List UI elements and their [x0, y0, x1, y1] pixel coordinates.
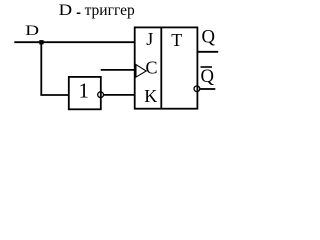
svg-text:T: T: [171, 30, 182, 50]
svg-text:K: K: [144, 86, 157, 106]
wire: inverter output to K input: [104, 94, 135, 96]
wire: C clock input: [101, 69, 135, 71]
JK flip-flop U2 box: [135, 27, 198, 108]
wire: Q output: [197, 51, 218, 53]
svg-text:триггер: триггер: [85, 2, 135, 19]
Qbar inversion bubble: [194, 86, 200, 92]
node Qbar label overbar: [201, 66, 213, 68]
inverter output inversion bubble: [98, 92, 104, 98]
junction dot at D branch: [39, 40, 43, 44]
svg-text:J: J: [146, 29, 153, 49]
svg-text:Q: Q: [201, 66, 215, 87]
wire: vertical drop from junction: [40, 42, 42, 95]
inverter U1 box: [69, 77, 101, 109]
wire: D input horizontal: [14, 41, 135, 43]
divider between control and main section: [160, 27, 162, 109]
wire: horizontal to inverter input: [40, 94, 69, 96]
svg-text:1: 1: [79, 79, 90, 103]
svg-text:C: C: [146, 57, 158, 77]
svg-text:D: D: [59, 2, 72, 19]
dynamic clock input triangle: [136, 65, 146, 78]
title hyphen of "D - триггер": [77, 13, 81, 15]
wire: Qbar output: [200, 88, 215, 90]
svg-text:D: D: [25, 23, 39, 39]
svg-text:Q: Q: [202, 27, 216, 48]
